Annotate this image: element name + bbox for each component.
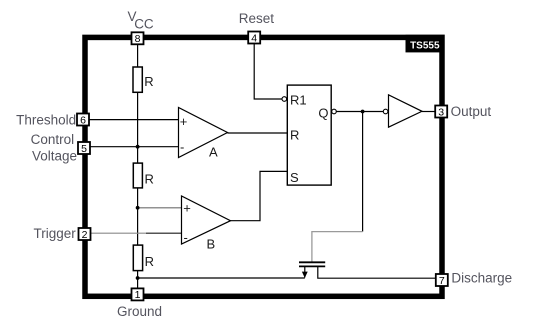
svg-text:+: + [180, 114, 188, 129]
wire Reset pin4 to flip-flop R1 [254, 44, 282, 100]
wire to transistor gate [312, 232, 363, 262]
output buffer U2 [383, 95, 422, 127]
svg-text:R: R [145, 254, 154, 269]
wire Threshold to comparator A plus [89, 119, 179, 121]
svg-text:Trigger: Trigger [34, 226, 77, 241]
svg-text:R1: R1 [290, 92, 307, 107]
flip-flop Q output bubble [332, 109, 337, 114]
svg-text:Q: Q [318, 106, 328, 121]
svg-text:1: 1 [135, 289, 141, 301]
resistor R3 [133, 245, 154, 271]
svg-text:Control: Control [31, 132, 75, 147]
pin 3 Output [435, 106, 447, 119]
node J1 [136, 145, 140, 149]
svg-text:TS555: TS555 [410, 41, 440, 52]
wire comparator A output to flip-flop R [228, 132, 288, 134]
flip-flop R1 input bubble [282, 97, 287, 102]
svg-text:Threshold: Threshold [16, 113, 76, 128]
label Control Voltage [31, 132, 77, 163]
svg-text:Reset: Reset [239, 11, 275, 26]
transistor Q1 channel plate [299, 265, 325, 267]
wire Trigger to comparator B minus [91, 232, 147, 234]
transistor Q1 drain terminal [318, 266, 436, 278]
pin 4 Reset [248, 32, 260, 45]
node Q junction [361, 110, 365, 114]
wire comparator B output to flip-flop S [231, 171, 288, 220]
wire buffer to pin3 [422, 111, 435, 113]
svg-text:A: A [209, 145, 218, 160]
flip-flop U1 [287, 85, 331, 185]
label VCC [128, 9, 154, 31]
pin 2 Trigger [79, 228, 91, 241]
transistor Q1 source arrow [302, 272, 308, 278]
wire node J2 to comparator B plus [138, 207, 182, 209]
svg-text:S: S [290, 170, 299, 185]
transistor Q1 source terminal [304, 266, 306, 277]
wire Q junction down [362, 112, 364, 232]
TS555 label box [406, 35, 445, 53]
transistor Q1 gate plate [299, 261, 325, 263]
wire ground node to transistor source [138, 277, 305, 279]
IC boundary border [85, 37, 442, 296]
op-amp comparator B [182, 196, 231, 252]
pin 5 Control Voltage [78, 142, 90, 155]
op-amp comparator A [179, 108, 228, 160]
svg-text:R: R [145, 172, 154, 187]
svg-text:3: 3 [438, 106, 444, 118]
pin 1 Ground [132, 288, 144, 301]
svg-text:-: - [184, 230, 188, 245]
wire Q to output buffer [336, 111, 383, 113]
svg-text:2: 2 [82, 229, 88, 241]
svg-text:8: 8 [135, 33, 141, 45]
svg-text:7: 7 [439, 275, 445, 287]
svg-text:5: 5 [81, 143, 87, 155]
svg-text:Output: Output [451, 104, 492, 119]
svg-text:R: R [144, 74, 153, 89]
wire R3 to node J3 to pin1 [137, 271, 139, 289]
wire pin8 to R1 [137, 44, 139, 67]
pin 7 Discharge [436, 274, 448, 287]
wire Trigger to comparator B minus (inner) [146, 232, 182, 234]
svg-text:CC: CC [134, 16, 154, 31]
resistor R2 [133, 163, 154, 188]
svg-text:-: - [180, 140, 184, 155]
wire Control Voltage to comparator A minus [90, 146, 179, 148]
pin 8 VCC [132, 32, 144, 45]
svg-text:+: + [183, 201, 191, 216]
wire R1 to node J1 to R2 [137, 92, 139, 163]
svg-text:4: 4 [251, 32, 257, 44]
node J3 [136, 276, 140, 280]
wire R2 to node J2 to R3 [137, 188, 139, 245]
pin 6 Threshold [77, 114, 89, 127]
svg-text:R: R [290, 128, 299, 143]
svg-text:Voltage: Voltage [32, 148, 77, 163]
svg-text:Discharge: Discharge [451, 271, 512, 286]
resistor R1 [133, 67, 154, 92]
svg-text:B: B [207, 237, 216, 252]
svg-text:Ground: Ground [117, 304, 162, 319]
svg-text:6: 6 [80, 114, 86, 126]
node J2 [136, 206, 140, 210]
